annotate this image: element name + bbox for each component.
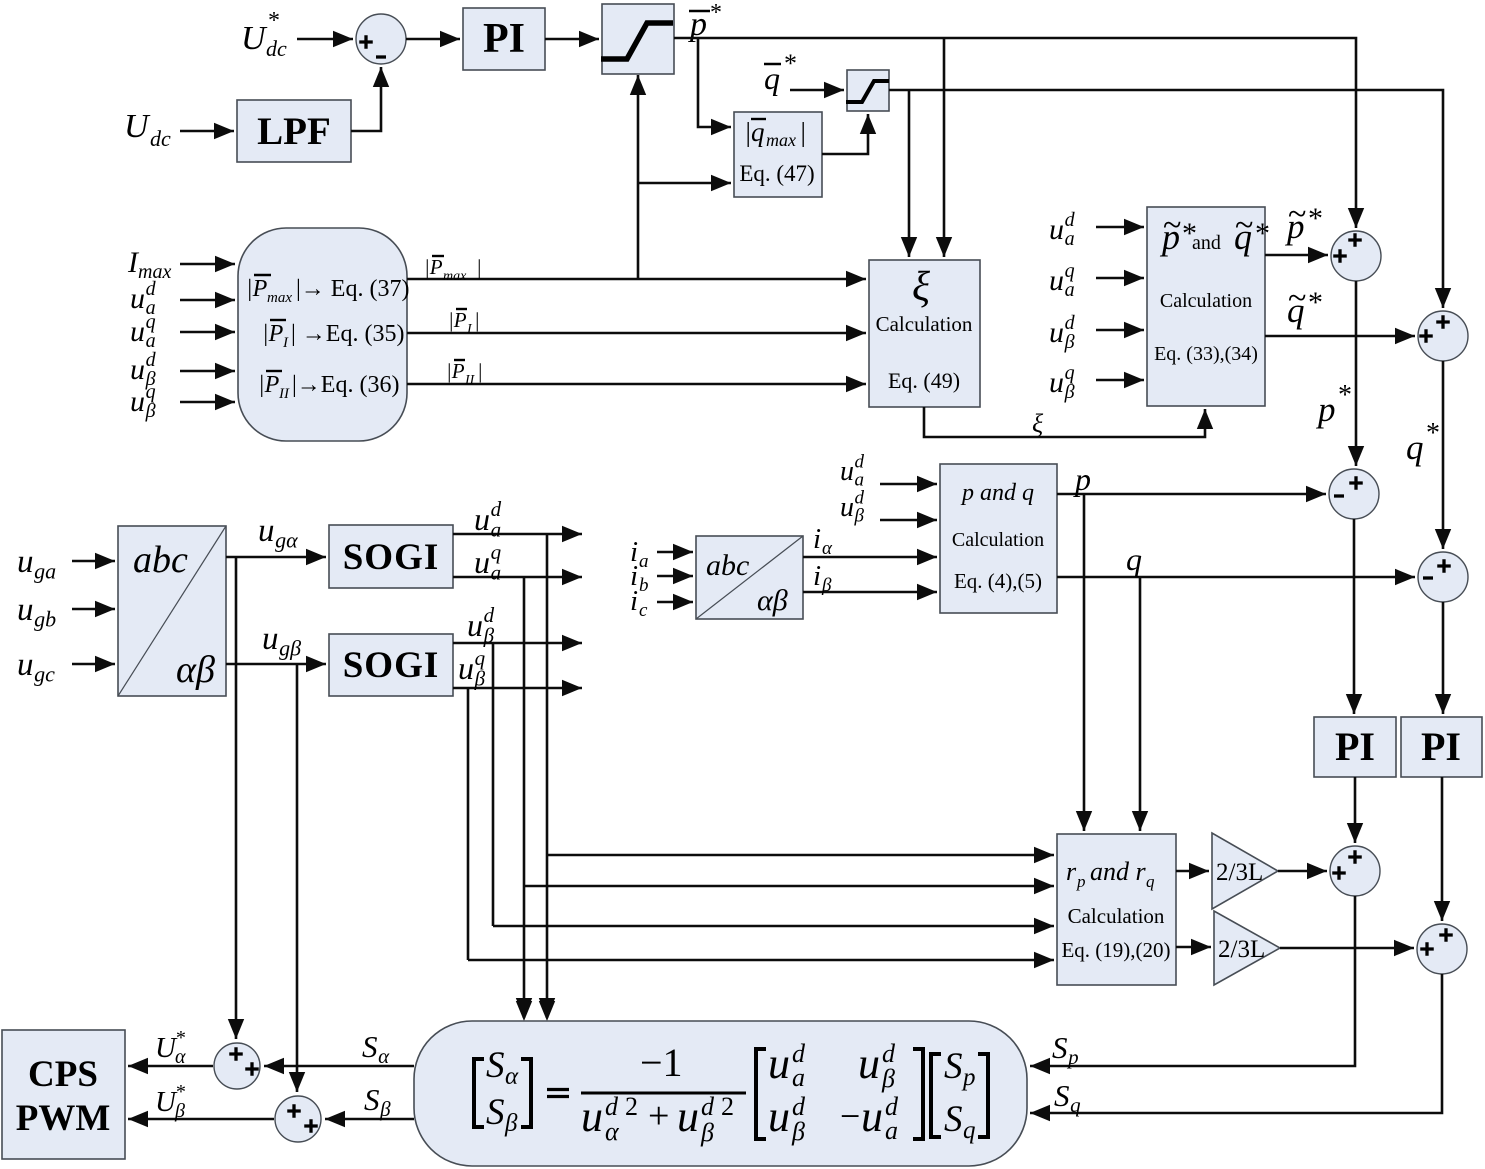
- svg-text:q: q: [1406, 428, 1424, 467]
- svg-text:β: β: [474, 666, 486, 690]
- svg-text:a: a: [885, 1116, 898, 1145]
- svg-text:−: −: [840, 1096, 860, 1136]
- svg-text:S: S: [362, 1029, 378, 1064]
- gain triangle 2/3L lower: [1214, 911, 1280, 985]
- svg-text:Eq. (19),(20): Eq. (19),(20): [1061, 938, 1170, 962]
- wire feed u-a-q into rp block: [524, 885, 1054, 888]
- svg-text:a: a: [1065, 279, 1075, 301]
- wire Sp from G1 to matrix block: [1030, 896, 1355, 1066]
- svg-text:2/3L: 2/3L: [1216, 859, 1263, 886]
- svg-text:α: α: [605, 1117, 620, 1146]
- block PI (dc loop): [463, 8, 545, 70]
- wire branch up into limiter bottom: [637, 75, 640, 279]
- svg-text:S: S: [364, 1082, 380, 1117]
- svg-text:U: U: [241, 20, 268, 57]
- svg-text:u: u: [130, 385, 145, 418]
- svg-text:|P: |P: [246, 276, 268, 302]
- block rp and rq calculation Eq19-20: [1057, 834, 1176, 985]
- matrix eq: fraction bar: [581, 1092, 746, 1095]
- svg-text:2: 2: [721, 1092, 734, 1121]
- wire gain2 to junction G2: [1280, 947, 1414, 950]
- wire junction Q to PI3: [1442, 602, 1445, 714]
- svg-text:and r: and r: [1090, 857, 1147, 886]
- wire p-bar-star main line to junction A: [674, 38, 1356, 228]
- svg-text:β: β: [145, 400, 156, 422]
- summing junction SJ1 (+,-): [356, 14, 406, 64]
- wire feed u-beta-q into rp block: [468, 959, 1054, 962]
- svg-text:β: β: [854, 506, 865, 527]
- block SOGI 1: [329, 525, 453, 588]
- svg-text:*: *: [268, 8, 280, 34]
- block CPS PWM: [2, 1030, 125, 1159]
- wire U*dc to sum junction: [297, 38, 353, 41]
- svg-text:~: ~: [1288, 196, 1306, 233]
- svg-text:dc: dc: [150, 126, 171, 151]
- svg-text:U: U: [124, 108, 151, 145]
- svg-text:2/3L: 2/3L: [1218, 936, 1265, 963]
- svg-text:abc: abc: [133, 539, 188, 581]
- wire branch p-bar to q-max block: [698, 38, 731, 127]
- block P-bar limits (Eq 35-37): [238, 228, 407, 441]
- block PI (q loop): [1401, 717, 1482, 777]
- matrix eq: bracket left 2: [756, 1049, 766, 1139]
- svg-text:S: S: [486, 1045, 505, 1086]
- summing junction U2 (+,+): [275, 1096, 321, 1142]
- svg-text:β: β: [821, 575, 832, 596]
- wire gain1 to junction G1: [1278, 870, 1327, 873]
- gain triangle 2/3L upper: [1212, 833, 1278, 909]
- svg-text:gβ: gβ: [279, 636, 301, 661]
- svg-text:|: |: [799, 117, 806, 147]
- svg-text:q: q: [1146, 872, 1155, 891]
- wire S-beta from matrix to junction U2: [325, 1118, 414, 1121]
- wire junction B down to junction Q: [1442, 361, 1445, 549]
- wire small limiter out to junction B: [889, 90, 1443, 308]
- svg-text:u: u: [130, 282, 145, 315]
- block q-max Eq47: [734, 112, 822, 197]
- wire q-bar-star to small limiter: [790, 89, 844, 92]
- svg-text:a: a: [491, 517, 502, 541]
- svg-text:gc: gc: [34, 662, 55, 687]
- wire branch q down to rp block: [1139, 577, 1142, 831]
- wire SJ1 to PI: [406, 38, 460, 41]
- svg-text:p: p: [1066, 1045, 1079, 1069]
- svg-text:p: p: [1073, 461, 1091, 497]
- svg-text:~: ~: [1288, 280, 1306, 317]
- svg-text:max: max: [267, 290, 292, 306]
- block LPF: [237, 100, 351, 162]
- svg-text:and: and: [1192, 232, 1221, 254]
- summing junction U1 (+,+): [214, 1043, 260, 1089]
- svg-text:β: β: [700, 1118, 714, 1147]
- block ptilde qtilde calculation Eq33-34: [1147, 207, 1265, 406]
- svg-text:u: u: [840, 492, 854, 523]
- wire u-g-alpha to SOGI1: [226, 556, 326, 559]
- wire SOGI2 out u-beta-q: [453, 687, 582, 690]
- wire branch q-bar down to xi block: [908, 90, 911, 257]
- wire branch u-g-alpha down to junction U1: [235, 557, 238, 1039]
- summing junction A (+,+): [1331, 231, 1381, 281]
- svg-text:CPS: CPS: [28, 1054, 98, 1095]
- wire U1 to CPS PWM: [128, 1065, 213, 1068]
- wire feed u-beta-d into rp block: [493, 925, 1054, 928]
- wire PI to limiter: [545, 38, 599, 41]
- svg-text:Eq. (49): Eq. (49): [888, 368, 960, 393]
- svg-text:β: β: [1064, 381, 1075, 403]
- svg-text:|P: |P: [424, 255, 443, 279]
- matrix eq: equals sign: [547, 1090, 569, 1097]
- wire qtilde-star out to junction B: [1265, 335, 1415, 338]
- svg-text:Calculation: Calculation: [952, 529, 1044, 551]
- wire P-max out to xi block: [407, 278, 866, 281]
- svg-text:αβ: αβ: [757, 584, 788, 617]
- wires into ptilde block: [1096, 226, 1144, 229]
- svg-text:u: u: [768, 1039, 790, 1088]
- svg-text:S: S: [1052, 1030, 1068, 1065]
- svg-text:u: u: [17, 544, 34, 580]
- svg-text:gα: gα: [275, 528, 298, 553]
- svg-text:*: *: [1308, 202, 1323, 235]
- svg-text:|→ Eq. (37): |→ Eq. (37): [296, 276, 409, 302]
- wire Udc to LPF: [180, 130, 234, 133]
- wire LPF to SJ1 bottom: [351, 67, 381, 131]
- wires into pq block from u labels: [880, 483, 937, 486]
- svg-text:II: II: [464, 373, 476, 388]
- wires into matrix block top: [516, 1001, 532, 1021]
- svg-text:*: *: [1308, 286, 1323, 319]
- svg-text:SOGI: SOGI: [343, 645, 440, 686]
- svg-text:u: u: [1049, 264, 1064, 297]
- svg-text:u: u: [130, 315, 145, 348]
- svg-text:|→Eq. (36): |→Eq. (36): [292, 372, 399, 398]
- svg-text:|: |: [474, 308, 480, 332]
- svg-text:PWM: PWM: [16, 1098, 111, 1139]
- block PI (p loop): [1314, 717, 1396, 777]
- wire PI2 to junction G1: [1354, 777, 1357, 843]
- wire branch to Eq47 block: [638, 182, 731, 185]
- wire p out to junction P: [1057, 493, 1326, 496]
- svg-text:a: a: [792, 1063, 805, 1092]
- svg-text:*: *: [1255, 217, 1270, 250]
- block xi calculation Eq49: [869, 260, 980, 407]
- block p and q calculation Eq4-5: [940, 464, 1057, 613]
- svg-text:p: p: [1076, 872, 1086, 891]
- svg-text:max: max: [766, 130, 796, 150]
- wire i-alpha to pq block: [803, 556, 937, 559]
- wire Sq from G2 to matrix block: [1030, 974, 1442, 1113]
- svg-text:abc: abc: [706, 549, 749, 582]
- svg-text:S: S: [944, 1099, 963, 1140]
- wires into abc1 block: [72, 560, 115, 563]
- small limiter block: [847, 70, 889, 111]
- svg-text:a: a: [491, 560, 502, 584]
- svg-text:I: I: [282, 335, 289, 351]
- svg-text:*: *: [784, 49, 797, 78]
- limiter block (saturation): [602, 4, 674, 74]
- svg-text:u: u: [130, 353, 145, 386]
- svg-text:S: S: [486, 1092, 505, 1133]
- svg-text:β: β: [1064, 331, 1075, 353]
- svg-text:u: u: [474, 544, 490, 580]
- matrix eq: bracket left 1: [474, 1059, 484, 1127]
- block SOGI 2: [329, 634, 453, 696]
- svg-text:|P: |P: [262, 321, 284, 347]
- svg-text:α: α: [822, 538, 833, 559]
- svg-text:u: u: [474, 501, 490, 537]
- svg-text:| →Eq. (35): | →Eq. (35): [291, 321, 404, 347]
- wire Eq47 to small limiter bottom: [822, 114, 868, 154]
- block abc-alphabeta (currents): [696, 536, 803, 619]
- svg-text:|P: |P: [258, 372, 280, 398]
- svg-text:u: u: [1049, 213, 1064, 246]
- svg-text:β: β: [174, 1100, 185, 1122]
- svg-text:q: q: [764, 60, 780, 96]
- svg-text:q: q: [1126, 541, 1142, 577]
- matrix eq: bracket right 2: [913, 1049, 923, 1139]
- wire U2 to CPS PWM: [128, 1118, 274, 1121]
- svg-text:α: α: [378, 1044, 390, 1068]
- svg-text:u: u: [1049, 366, 1064, 399]
- svg-text:i: i: [813, 523, 821, 555]
- summing junction Q (-,+): [1418, 552, 1468, 602]
- svg-text:u: u: [458, 650, 474, 686]
- wire junction A down to junction P: [1355, 281, 1358, 466]
- svg-text:u: u: [840, 456, 854, 487]
- wire SOGI1 out u-a-q: [453, 576, 582, 579]
- svg-text:Eq. (33),(34): Eq. (33),(34): [1154, 343, 1258, 365]
- wire PI3 to junction G2: [1441, 777, 1444, 921]
- wire rp out to gain 2/3L: [1176, 870, 1209, 873]
- svg-text:PI: PI: [1335, 724, 1375, 769]
- wire branch p-bar down to xi block: [943, 38, 946, 257]
- svg-text:+: +: [648, 1095, 669, 1137]
- wire branch u-beta-q down then right to rp block: [467, 688, 470, 960]
- svg-text:Calculation: Calculation: [1068, 904, 1165, 928]
- wire rq out to gain 2/3L lower: [1176, 946, 1211, 949]
- wire i-beta to pq block: [803, 591, 937, 594]
- svg-text:u: u: [581, 1092, 603, 1141]
- svg-text:u: u: [1049, 316, 1064, 349]
- wire junction P to PI2: [1353, 519, 1356, 714]
- svg-text:ξ: ξ: [912, 264, 930, 310]
- svg-text:u: u: [861, 1092, 883, 1141]
- summing junction B (+,+): [1418, 311, 1468, 361]
- svg-text:Eq. (4),(5): Eq. (4),(5): [954, 569, 1042, 593]
- svg-text:p and q: p and q: [960, 480, 1034, 506]
- wire SOGI1 out u-a-d: [453, 533, 582, 536]
- svg-text:i: i: [630, 585, 638, 617]
- wire u-g-beta to SOGI2: [226, 663, 326, 666]
- svg-text:u: u: [17, 647, 34, 683]
- svg-text:|: |: [477, 359, 483, 383]
- block matrix equation: [414, 1021, 1027, 1166]
- matrix eq: bracket left 3: [931, 1054, 941, 1137]
- svg-text:*: *: [1426, 418, 1440, 449]
- svg-text:S: S: [944, 1046, 963, 1087]
- svg-text:p: p: [961, 1064, 976, 1091]
- svg-text:b: b: [639, 575, 649, 596]
- svg-text:u: u: [768, 1092, 790, 1141]
- svg-text:II: II: [278, 386, 290, 402]
- svg-text:S: S: [1054, 1078, 1070, 1113]
- svg-text:a: a: [639, 551, 649, 572]
- svg-text:−1: −1: [640, 1040, 683, 1085]
- svg-text:u: u: [17, 592, 34, 628]
- svg-text:α: α: [175, 1046, 186, 1068]
- svg-text:PI: PI: [1421, 724, 1461, 769]
- svg-text:~: ~: [1235, 207, 1253, 244]
- matrix eq: bracket right 3: [978, 1054, 988, 1137]
- svg-text:r: r: [1066, 857, 1077, 886]
- wires into abc2 block: [657, 551, 693, 554]
- svg-text:c: c: [639, 600, 648, 621]
- svg-text:a: a: [1065, 228, 1075, 250]
- summing junction P (-,+): [1329, 469, 1379, 519]
- wire branch p down to rp block: [1083, 494, 1086, 831]
- wire q out to junction Q: [1057, 576, 1415, 579]
- svg-text:q: q: [1070, 1093, 1081, 1117]
- svg-text:|P: |P: [446, 359, 465, 383]
- svg-text:ξ: ξ: [1032, 409, 1044, 438]
- wire feed u-a-d into rp block: [547, 854, 1054, 857]
- matrix eq: bracket right 1: [521, 1059, 531, 1127]
- svg-text:max: max: [443, 269, 467, 284]
- svg-text:2: 2: [625, 1092, 638, 1121]
- wire P-I out to xi block: [407, 332, 866, 335]
- wire ptilde-star out to junction A: [1265, 254, 1328, 257]
- svg-text:Eq. (47): Eq. (47): [739, 161, 814, 186]
- svg-text:Calculation: Calculation: [1160, 290, 1252, 312]
- svg-text:β: β: [379, 1097, 391, 1121]
- svg-text:dc: dc: [266, 36, 287, 61]
- svg-text:~: ~: [1163, 207, 1181, 244]
- svg-text:Calculation: Calculation: [876, 312, 973, 336]
- wire P-II out to xi block: [407, 383, 866, 386]
- svg-text:u: u: [262, 621, 279, 657]
- svg-text:SOGI: SOGI: [343, 537, 440, 578]
- block abc-alphabeta (grid voltages): [118, 526, 226, 696]
- svg-text:PI: PI: [483, 16, 525, 62]
- svg-text:*: *: [1338, 380, 1352, 411]
- svg-text:αβ: αβ: [176, 649, 215, 691]
- svg-text:ga: ga: [34, 559, 56, 584]
- svg-text:gb: gb: [34, 607, 56, 632]
- svg-text:u: u: [677, 1092, 699, 1141]
- wire branch u-g-beta down to junction U2: [296, 664, 299, 1092]
- wire xi out to ptilde-qtilde block: [924, 407, 1205, 437]
- svg-text:q: q: [963, 1117, 976, 1144]
- wires into P-bar block: [180, 263, 235, 266]
- summing junction G1 (+,+): [1330, 846, 1380, 896]
- wire S-alpha from matrix to junction U1: [264, 1065, 414, 1068]
- svg-text:α: α: [505, 1063, 519, 1090]
- wire branch u-beta-d down then right to rp block: [492, 643, 495, 926]
- svg-text:|P: |P: [448, 308, 467, 332]
- svg-text:|: |: [476, 255, 482, 279]
- svg-text:β: β: [504, 1110, 518, 1137]
- wire branch u-a-d down to rp block and matrix: [546, 534, 549, 1018]
- svg-text:β: β: [881, 1064, 895, 1093]
- svg-text:*: *: [710, 0, 722, 26]
- svg-text:LPF: LPF: [257, 110, 331, 153]
- svg-text:p: p: [1315, 390, 1336, 429]
- svg-text:u: u: [467, 607, 483, 643]
- wire branch u-a-q down to rp block and matrix: [523, 577, 526, 1018]
- svg-text:d: d: [701, 1092, 715, 1121]
- svg-text:i: i: [813, 560, 821, 592]
- wire SOGI2 out u-beta-d: [453, 642, 582, 645]
- svg-text:q: q: [751, 117, 765, 147]
- svg-text:β: β: [791, 1117, 805, 1146]
- svg-text:u: u: [258, 513, 275, 549]
- svg-text:u: u: [858, 1039, 880, 1088]
- summing junction G2 (+,+): [1417, 924, 1467, 974]
